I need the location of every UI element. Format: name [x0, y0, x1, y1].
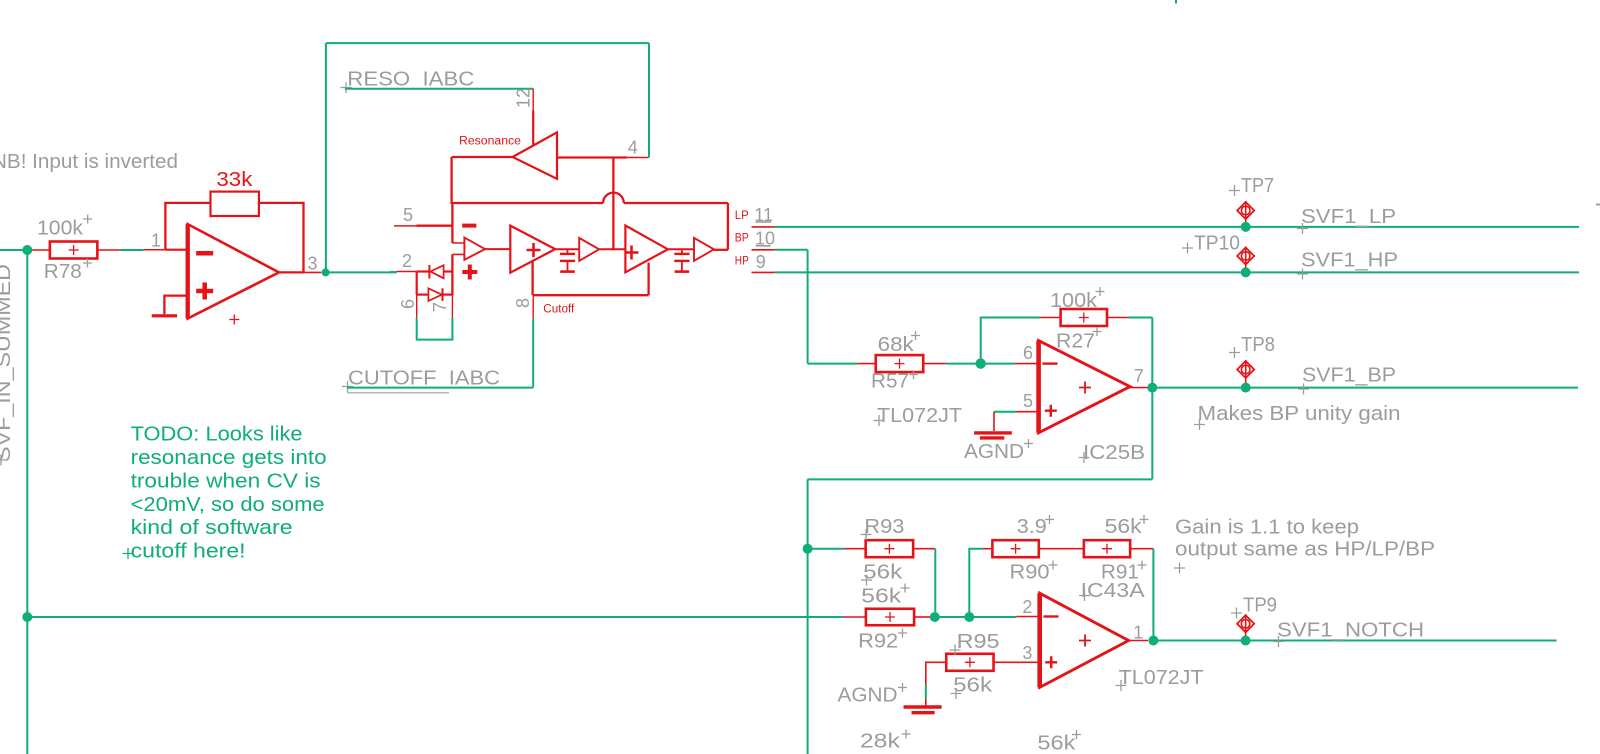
- svg-text:2: 2: [1022, 597, 1032, 617]
- svg-text:IC43A: IC43A: [1081, 580, 1146, 602]
- svg-text:5: 5: [1023, 391, 1033, 411]
- svg-text:HP: HP: [735, 256, 749, 268]
- svg-text:56k: 56k: [861, 586, 902, 608]
- resistor R feedback 33k: [211, 192, 259, 216]
- text origin cross TP8: [1229, 347, 1240, 358]
- wire input bus top: [451, 203, 453, 243]
- test point TP9: [1237, 614, 1254, 637]
- diode D2 (points right): [428, 288, 442, 301]
- text origin cross 56k R95: [951, 688, 962, 699]
- wire feedback right vertical: [259, 203, 304, 273]
- wire reso feedback loop left vertical: [325, 43, 327, 268]
- text origin cross Makes-BP note: [1194, 419, 1205, 430]
- wire pin 4 stub thin: [627, 157, 649, 159]
- resistor R78: [50, 242, 98, 259]
- wire U1 output to filter pin 2: [326, 271, 397, 273]
- svg-text:BP: BP: [735, 233, 749, 245]
- wire reso feedback loop right vertical: [648, 43, 650, 157]
- op-amp U1: [188, 224, 279, 318]
- resistor R95 56k: [946, 654, 993, 671]
- svg-text:Cutoff: Cutoff: [543, 304, 575, 316]
- wire buffer3 out: [714, 249, 728, 251]
- wire pin 12 into resonance amp: [532, 111, 534, 147]
- text origin cross SVF1_LP: [1297, 223, 1308, 234]
- text origin cross SVF1_NOTCH: [1273, 636, 1284, 647]
- wire diode node vertical: [416, 272, 418, 295]
- capacitor C int1: [560, 249, 575, 271]
- buffer 3 triangle: [694, 238, 714, 261]
- wire junction up to R90: [969, 549, 982, 617]
- junction TP7 on SVF1_LP: [1241, 222, 1251, 232]
- svg-text:Resonance: Resonance: [459, 136, 521, 148]
- svg-text:SVF1_LP: SVF1_LP: [1301, 206, 1396, 228]
- svg-text:100k: 100k: [37, 218, 84, 240]
- wire R91 right stub: [1130, 548, 1153, 550]
- wire output node vertical: [1151, 318, 1153, 388]
- svg-text:100k: 100k: [1050, 290, 1098, 312]
- junction at IC43A inverting input: [964, 612, 974, 622]
- plus symbol IC25B: [1045, 405, 1057, 417]
- ground bar at U1 + input: [152, 314, 177, 317]
- wire BP out down left: [807, 479, 809, 548]
- wire pin 5 net (AGND): [994, 411, 1016, 413]
- svg-text:1: 1: [151, 230, 161, 250]
- svg-text:R90: R90: [1010, 562, 1050, 584]
- svg-text:TP10: TP10: [1194, 233, 1240, 255]
- cross after R91: [1138, 561, 1147, 570]
- AGND symbol at IC25B: [974, 412, 1012, 438]
- cross after AGND IC43A: [898, 683, 907, 692]
- wire junction to pin 6: [984, 363, 1015, 365]
- buffer 2 triangle: [579, 238, 599, 261]
- svg-text:4: 4: [628, 138, 638, 158]
- wire pin stub into R78: [32, 249, 50, 251]
- text origin cross SVF1_BP: [1298, 384, 1309, 395]
- resistor R27 100k: [1061, 309, 1107, 326]
- cross after AGND: [1024, 439, 1033, 448]
- wire notch node down off-page: [807, 549, 809, 754]
- wire continues down off-page: [26, 617, 28, 754]
- text origin cross RESO_IABC: [341, 82, 352, 93]
- wire RESO_IABC label stub: [345, 88, 533, 90]
- svg-text:<20mV, so do some: <20mV, so do some: [131, 494, 325, 516]
- resonance amp triangle: [513, 132, 557, 178]
- junction TP8 on SVF1_BP: [1241, 383, 1251, 393]
- wire input bus lower: [451, 254, 453, 295]
- cross after 100k: [83, 215, 92, 224]
- wire R93 left stub: [845, 548, 866, 550]
- svg-text:12: 12: [514, 88, 534, 108]
- wire IC43A output stub: [1129, 640, 1148, 642]
- wire net SVF1_HP: [775, 271, 1580, 273]
- op-amp IC25B: [1039, 341, 1130, 433]
- wire pin 4 input: [557, 156, 627, 158]
- junction at U1 output: [322, 268, 330, 276]
- wire R27 right stub: [1107, 317, 1128, 319]
- wire net SVF1_BP: [1246, 387, 1578, 389]
- wire R78 to net: [98, 249, 121, 251]
- svg-text:56k: 56k: [1105, 516, 1143, 538]
- wire buffer3 up to LP rail: [727, 203, 729, 250]
- text origin cross gain note: [1174, 563, 1185, 574]
- wire IC43A output to TP9: [1153, 640, 1242, 642]
- text origin cross TODO note: [123, 548, 134, 559]
- wire integrator1 out: [555, 248, 579, 250]
- underline of pin number 11: [756, 221, 771, 223]
- origin cross of op-amp U1: [229, 315, 239, 325]
- wire pin4 node down crossing rail: [612, 158, 614, 250]
- wire R93 down to summing node: [934, 549, 936, 612]
- minus symbol at pin 5 input: [462, 224, 476, 228]
- wire net SVF_IN_SUMMED from left edge: [0, 249, 23, 251]
- wire pin 6 stub: [416, 295, 418, 318]
- svg-text:7: 7: [1134, 366, 1144, 386]
- wire R57 left stub: [858, 363, 876, 365]
- test point TP7: [1237, 201, 1254, 224]
- svg-text:68k: 68k: [878, 334, 915, 356]
- wire LP rail left segment: [452, 202, 603, 204]
- wire feedback left vertical: [165, 203, 210, 250]
- wire U1 output stub: [304, 271, 322, 273]
- wire pin 10 stub: [752, 249, 775, 251]
- wire R93 right stub: [913, 548, 935, 550]
- wire reso feedback loop top: [326, 42, 649, 44]
- svg-text:R92: R92: [858, 631, 898, 653]
- text origin cross TP9: [1231, 608, 1242, 619]
- clipped grey mark right edge: [1596, 204, 1600, 206]
- svg-text:AGND: AGND: [964, 441, 1024, 463]
- svg-text:28k: 28k: [860, 731, 901, 753]
- wire pin 2 stub IC43A: [1017, 616, 1039, 618]
- op-amp U1 plus symbol: [196, 283, 213, 300]
- svg-text:7: 7: [430, 302, 450, 312]
- text origin cross IC25B: [1079, 452, 1090, 463]
- svg-text:output same as HP/LP/BP: output same as HP/LP/BP: [1175, 539, 1435, 561]
- wire crossing hop arc: [603, 193, 624, 203]
- svg-text:AGND: AGND: [838, 685, 898, 707]
- svg-text:TP8: TP8: [1241, 334, 1275, 356]
- svg-text:LP: LP: [735, 210, 749, 222]
- wire pin 9 stub: [752, 271, 775, 273]
- svg-text:6: 6: [398, 299, 418, 309]
- wire BP net right: [775, 249, 808, 251]
- minus symbol IC43A: [1044, 615, 1059, 617]
- wire R95 right stub to pin 3: [994, 661, 1039, 663]
- text origin cross TL072JT IC43A: [1116, 680, 1127, 691]
- wire pin 1 stub thin: [143, 249, 165, 251]
- wire into diode D1: [417, 270, 430, 272]
- wire IC25B output stub: [1130, 387, 1148, 389]
- cross after R92: [898, 629, 907, 638]
- svg-text:3.9: 3.9: [1017, 516, 1047, 538]
- resistor R91 56k: [1084, 540, 1130, 557]
- text origin cross TP7: [1229, 185, 1240, 196]
- wire diode D2 to bus: [443, 294, 453, 296]
- svg-text:IC25B: IC25B: [1083, 442, 1145, 464]
- svg-text:R27: R27: [1056, 331, 1095, 353]
- text origin cross CUTOFF_IABC: [342, 381, 353, 392]
- svg-text:5: 5: [403, 205, 413, 225]
- text origin cross R95: [950, 645, 961, 656]
- svg-text:RESO_IABC: RESO_IABC: [347, 69, 474, 91]
- text origin cross 56k R93: [861, 575, 872, 586]
- text origin cross IC43A: [1079, 590, 1090, 601]
- underline of pin number 10: [756, 245, 771, 247]
- wire BP out down: [1151, 388, 1153, 480]
- junction at IC25B output: [1147, 383, 1157, 393]
- wire U1 output: [279, 271, 304, 273]
- junction TP9 on SVF1_NOTCH: [1241, 636, 1251, 646]
- resistor R90 3.9: [992, 540, 1038, 557]
- wire net into pin 2: [390, 271, 397, 273]
- text origin cross SVF_IN_SUMMED: [0, 455, 7, 466]
- minus symbol IC25B: [1043, 362, 1058, 364]
- op-amp U1 minus symbol: [196, 251, 213, 256]
- svg-text:TL072JT: TL072JT: [877, 405, 962, 427]
- wire pin 5 stub thin: [394, 225, 417, 227]
- wire R95 left to AGND corner: [926, 662, 946, 685]
- svg-text:resonance gets into: resonance gets into: [131, 447, 327, 469]
- svg-text:3: 3: [1022, 643, 1032, 663]
- svg-text:SVF_IN_SUMMED: SVF_IN_SUMMED: [0, 264, 15, 462]
- resistor R57 68k: [876, 355, 924, 372]
- wire resonance output down to rail: [450, 157, 452, 204]
- wire bottom rail: [533, 294, 649, 296]
- wire integrator2 out: [668, 248, 694, 250]
- wire BP out across: [808, 478, 1153, 480]
- wire summing node link: [935, 616, 970, 618]
- op-amp IC43A: [1040, 593, 1129, 687]
- wire R57 right stub: [923, 363, 946, 365]
- plus symbol in integrator 2: [625, 246, 639, 260]
- wire net SVF1_NOTCH: [1246, 640, 1557, 642]
- wire AGND net segment: [925, 685, 927, 699]
- svg-text:9: 9: [756, 252, 766, 272]
- wire pin 1 stub: [165, 249, 187, 251]
- resistor R92: [866, 609, 914, 626]
- test point TP8: [1237, 360, 1254, 383]
- text origin cross SVF1_HP: [1297, 269, 1308, 280]
- svg-text:cutoff here!: cutoff here!: [131, 541, 246, 563]
- plus symbol IC43A: [1045, 656, 1057, 668]
- junction at IC25B inverting input: [976, 358, 986, 368]
- junction TP10 on SVF1_HP: [1241, 267, 1251, 277]
- cross after 28k: [902, 730, 911, 739]
- wire pin 11 stub: [752, 226, 775, 228]
- plus symbol at pin 2 input: [462, 265, 477, 280]
- wire CUTOFF_IABC label stub: [347, 387, 533, 389]
- junction at R93 input: [803, 544, 813, 554]
- wire R57 to junction: [946, 363, 980, 365]
- integrator 1 triangle: [510, 226, 555, 273]
- wire LP rail right segment: [624, 202, 728, 204]
- cross after R78: [83, 259, 92, 268]
- svg-text:R57: R57: [871, 371, 909, 393]
- cross after R57: [909, 370, 918, 379]
- AGND symbol at IC43A: [904, 699, 942, 713]
- svg-text:2: 2: [402, 251, 412, 271]
- wire net segment to op-amp pin 1: [120, 249, 143, 251]
- svg-text:SVF1_BP: SVF1_BP: [1302, 365, 1396, 387]
- wire R91 down to output node: [1152, 549, 1154, 636]
- junction at notch feed node: [22, 612, 32, 622]
- wire R90 left stub: [983, 548, 993, 550]
- wire into diode D2: [417, 294, 429, 296]
- wire to pin 2 IC43A: [974, 616, 1017, 618]
- wire pin 6 stub IC25B: [1015, 363, 1039, 365]
- svg-text:1: 1: [1133, 623, 1143, 643]
- cross after 56k R92: [901, 584, 910, 593]
- grey underline under CUTOFF_: [347, 392, 449, 394]
- wire IC25B output to TP8: [1152, 387, 1242, 389]
- junction at IC43A output: [1148, 636, 1158, 646]
- resistor R93: [866, 540, 914, 557]
- wire R27 left stub: [1040, 317, 1061, 319]
- svg-text:NB! Input is inverted: NB! Input is inverted: [0, 151, 178, 173]
- svg-text:trouble when CV is: trouble when CV is: [131, 470, 321, 492]
- cross after R90: [1049, 561, 1058, 570]
- text origin cross TL072JT: [874, 415, 885, 426]
- wire long net to R92: [32, 616, 844, 618]
- wire buffer to integrator 1: [485, 248, 510, 250]
- integrator 2 triangle: [625, 226, 668, 273]
- cross after 3.9: [1045, 515, 1054, 524]
- svg-text:R78: R78: [44, 261, 82, 283]
- svg-text:R95: R95: [957, 631, 1000, 653]
- svg-text:TL072JT: TL072JT: [1119, 667, 1204, 689]
- wire non-inverting input to ground: [164, 296, 187, 315]
- wire R90-R91 link: [1039, 548, 1084, 550]
- wire stub at top edge: [1175, 0, 1177, 4]
- junction at input node: [22, 245, 32, 255]
- input buffer triangle: [464, 238, 485, 260]
- wire BP net to R57: [808, 363, 858, 365]
- svg-text:CUTOFF_IABC: CUTOFF_IABC: [348, 368, 500, 390]
- wire BP net down: [807, 250, 809, 364]
- wire R27 to output node: [1128, 317, 1153, 319]
- cross after 56k bottom: [1072, 730, 1081, 739]
- origin cross IC43A symbol: [1079, 635, 1091, 647]
- wire pin 7 stub: [451, 296, 453, 318]
- wire pins 6-7 loop: [417, 318, 453, 340]
- wire net SVF1_LP: [775, 226, 1580, 228]
- wire pin 8 stub: [532, 296, 534, 318]
- wire buffer2 out: [599, 248, 625, 250]
- svg-text:Gain is 1.1 to keep: Gain is 1.1 to keep: [1175, 517, 1359, 539]
- wire pin 12 stub: [532, 89, 534, 111]
- svg-text:TP7: TP7: [1241, 175, 1274, 197]
- wire pin 8 to CUTOFF label: [532, 318, 534, 387]
- wire pin 2 stub: [397, 271, 417, 273]
- wire input node vertical: [26, 250, 28, 617]
- wire bottom rail up to integrator 2: [647, 263, 649, 296]
- wire diode D1 to bus: [444, 270, 453, 272]
- wire pin 5 stub: [417, 225, 453, 227]
- cross after 68k: [911, 331, 920, 340]
- svg-text:TP9: TP9: [1243, 595, 1277, 617]
- text origin cross TP10: [1182, 243, 1193, 254]
- cross after 100k R27: [1096, 287, 1105, 296]
- svg-text:TODO: Looks like: TODO: Looks like: [131, 424, 303, 446]
- svg-text:6: 6: [1023, 343, 1033, 363]
- note TODO (green): [131, 424, 327, 563]
- diode D1 (points left): [429, 265, 443, 279]
- capacitor C int2: [674, 249, 689, 271]
- origin cross IC25B symbol: [1079, 382, 1091, 394]
- wire integrator1 fb tap: [531, 261, 533, 295]
- buffer stage input stubs: [452, 243, 464, 254]
- wire resonance output: [452, 156, 513, 158]
- svg-text:SVF1_NOTCH: SVF1_NOTCH: [1277, 620, 1424, 642]
- wire to R93: [812, 548, 845, 550]
- cross after 56k R91: [1140, 515, 1149, 524]
- svg-text:Makes BP unity gain: Makes BP unity gain: [1198, 403, 1401, 425]
- test point TP10: [1237, 247, 1254, 270]
- cross after R27: [1093, 327, 1102, 336]
- svg-text:SVF1_HP: SVF1_HP: [1301, 250, 1398, 272]
- junction R92/R93 node: [930, 612, 940, 622]
- svg-text:56k: 56k: [1037, 733, 1076, 754]
- svg-text:3: 3: [308, 254, 318, 274]
- svg-text:8: 8: [513, 298, 533, 308]
- wire pin 5 stub IC25B: [1016, 411, 1039, 413]
- wire R92 left stub: [844, 616, 866, 618]
- svg-text:33k: 33k: [216, 169, 253, 191]
- text origin cross R93: [861, 529, 872, 540]
- wire R92 right stub: [914, 616, 930, 618]
- plus symbol in integrator 1: [527, 243, 541, 257]
- svg-text:kind of software: kind of software: [131, 517, 293, 539]
- wire junction up to R27: [981, 318, 1040, 364]
